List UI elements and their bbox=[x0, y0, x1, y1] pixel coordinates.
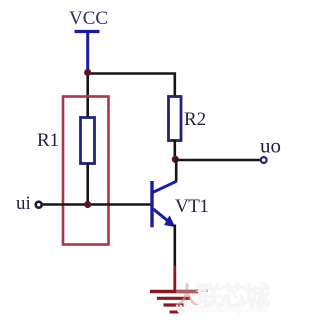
wire: R2 branch down to R2 top bbox=[174, 73, 177, 98]
wire: R2 bottom to collector node bbox=[174, 140, 177, 160]
power symbol VCC bbox=[75, 32, 100, 72]
highlight box around R1 bbox=[63, 97, 109, 245]
svg-text:ui: ui bbox=[16, 193, 31, 214]
output terminal uo bbox=[261, 157, 267, 163]
wire: emitter vertical black segment bbox=[174, 225, 177, 268]
svg-text:uo: uo bbox=[260, 134, 281, 158]
svg-text:R2: R2 bbox=[184, 109, 206, 130]
svg-text:R1: R1 bbox=[37, 130, 59, 151]
svg-text:www.dlchip.net: www.dlchip.net bbox=[175, 301, 268, 315]
wire: collector vertical segment bbox=[175, 158, 178, 182]
wire: base wire from ui terminal to transistor bbox=[42, 203, 151, 206]
input terminal ui bbox=[36, 202, 42, 208]
wire: R1 bottom to base wire bbox=[86, 163, 89, 205]
transistor VT1 bbox=[152, 181, 177, 227]
svg-text:VT1: VT1 bbox=[175, 196, 208, 217]
wire: top horizontal from VCC node to R2 branch bbox=[87, 72, 176, 75]
node B: junction dot base/R1 bbox=[84, 201, 91, 208]
node C: junction dot collector/output bbox=[172, 156, 179, 163]
wire: VCC node down to R1 top bbox=[86, 72, 89, 118]
wire: emitter dark red segment to ground bbox=[173, 266, 176, 291]
resistor R2 bbox=[169, 97, 182, 141]
ground bbox=[150, 291, 208, 313]
wire: output wire to uo terminal bbox=[175, 159, 261, 162]
node A: junction dot at VCC split bbox=[84, 69, 91, 76]
resistor R1 bbox=[81, 118, 95, 164]
watermark bbox=[175, 281, 270, 315]
svg-text:VCC: VCC bbox=[69, 8, 108, 29]
